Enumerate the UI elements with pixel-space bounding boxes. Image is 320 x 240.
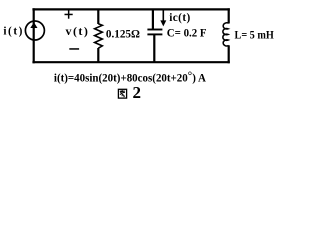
wire capacitor bottom stub	[153, 34, 155, 62]
wire inductor bottom stub	[228, 45, 230, 63]
capacitor C top plate	[147, 29, 162, 31]
svg-text:L= 5 mH: L= 5 mH	[235, 27, 275, 41]
current source I1 circle	[25, 21, 44, 40]
svg-text:ic(t): ic(t)	[169, 12, 190, 24]
resistor R zigzag	[95, 24, 103, 48]
svg-text:v(t): v(t)	[66, 24, 88, 38]
wire resistor bottom stub	[97, 48, 99, 62]
capacitor C bottom plate	[147, 33, 162, 35]
current arrow ic(t)	[160, 10, 166, 27]
svg-text:2: 2	[133, 83, 142, 102]
svg-text:0.125Ω: 0.125Ω	[106, 26, 140, 40]
label - polarity	[69, 48, 79, 50]
svg-text:i(t)=40sin(20t)+80cos(20t+20°): i(t)=40sin(20t)+80cos(20t+20°) A	[54, 69, 206, 85]
wire left branch	[33, 8, 35, 63]
label + polarity	[65, 10, 73, 18]
caption figure char	[118, 89, 126, 98]
wire resistor top stub	[97, 9, 99, 24]
inductor L coil	[223, 23, 229, 46]
wire top rail	[32, 8, 229, 10]
wire capacitor top stub	[152, 9, 154, 29]
svg-text:C= 0.2 F: C= 0.2 F	[167, 26, 207, 40]
svg-text:i(t): i(t)	[3, 26, 22, 38]
wire inductor top stub	[228, 8, 230, 23]
current source I1 arrowhead	[30, 22, 37, 28]
wire bottom rail	[32, 61, 229, 63]
